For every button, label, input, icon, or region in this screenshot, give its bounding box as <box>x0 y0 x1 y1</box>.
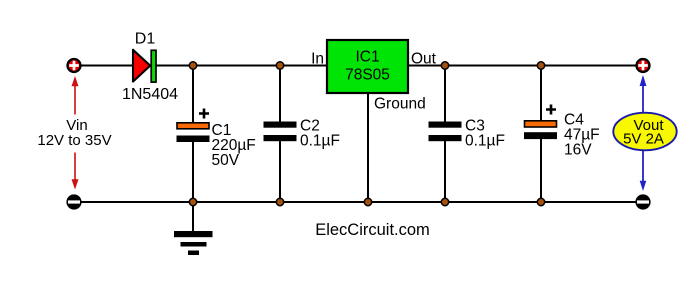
node junction top C3 <box>441 62 448 69</box>
node junction bottom C1 <box>189 198 196 205</box>
node junction bottom C3 <box>441 198 448 205</box>
wire C4 bottom lead <box>540 139 542 202</box>
svg-text:16V: 16V <box>564 142 592 159</box>
terminal input positive <box>68 59 81 72</box>
svg-text:IC1: IC1 <box>355 49 379 66</box>
capacitor C2 <box>264 118 340 150</box>
terminal input negative <box>66 194 81 209</box>
svg-text:50V: 50V <box>212 152 240 169</box>
wire C2 bottom lead <box>279 141 281 203</box>
wire ground stub <box>192 202 194 233</box>
wire top rail: IC1 Out pin to output terminal <box>408 65 643 67</box>
wire IC1 ground pin lead <box>367 93 369 202</box>
node junction top C1 <box>189 62 196 69</box>
ground <box>174 231 213 255</box>
wire C2 top lead <box>279 66 281 123</box>
node junction bottom IC ground <box>364 198 371 205</box>
Vout annotation arrows and bubble <box>613 75 676 191</box>
wire top rail: input terminal to diode anode <box>74 65 134 67</box>
capacitor C3 <box>429 118 505 150</box>
wire C3 top lead <box>444 66 446 123</box>
wire C1 bottom lead <box>192 141 194 202</box>
svg-text:ElecCircuit.com: ElecCircuit.com <box>315 221 430 239</box>
svg-text:Ground: Ground <box>374 96 426 113</box>
node junction bottom C4 <box>537 198 544 205</box>
Vin annotation arrows and label <box>37 76 111 190</box>
regulator IC1 78S05 <box>311 40 437 113</box>
svg-text:Out: Out <box>411 51 437 68</box>
node junction top C4 <box>537 62 544 69</box>
svg-text:78S05: 78S05 <box>345 67 390 84</box>
wire C3 bottom lead <box>444 141 446 203</box>
svg-text:In: In <box>311 51 324 68</box>
diode D1 <box>122 31 178 104</box>
svg-text:1N5404: 1N5404 <box>122 86 178 103</box>
terminal output positive <box>637 59 650 72</box>
terminal output negative <box>635 194 650 209</box>
wire top rail: diode cathode to IC1 In pin <box>155 65 327 67</box>
node junction top C2 <box>276 62 283 69</box>
svg-text:0.1µF: 0.1µF <box>465 133 505 150</box>
capacitor C1 <box>177 109 256 170</box>
svg-text:5V 2A: 5V 2A <box>623 131 664 148</box>
wire C1 top lead <box>192 66 194 124</box>
capacitor C4 <box>524 105 600 159</box>
svg-text:12V to 35V: 12V to 35V <box>37 132 111 149</box>
wire C4 top lead <box>540 66 542 122</box>
svg-text:0.1µF: 0.1µF <box>300 133 340 150</box>
wire bottom rail <box>74 201 643 203</box>
node junction bottom C2 <box>276 198 283 205</box>
svg-text:D1: D1 <box>135 31 156 48</box>
